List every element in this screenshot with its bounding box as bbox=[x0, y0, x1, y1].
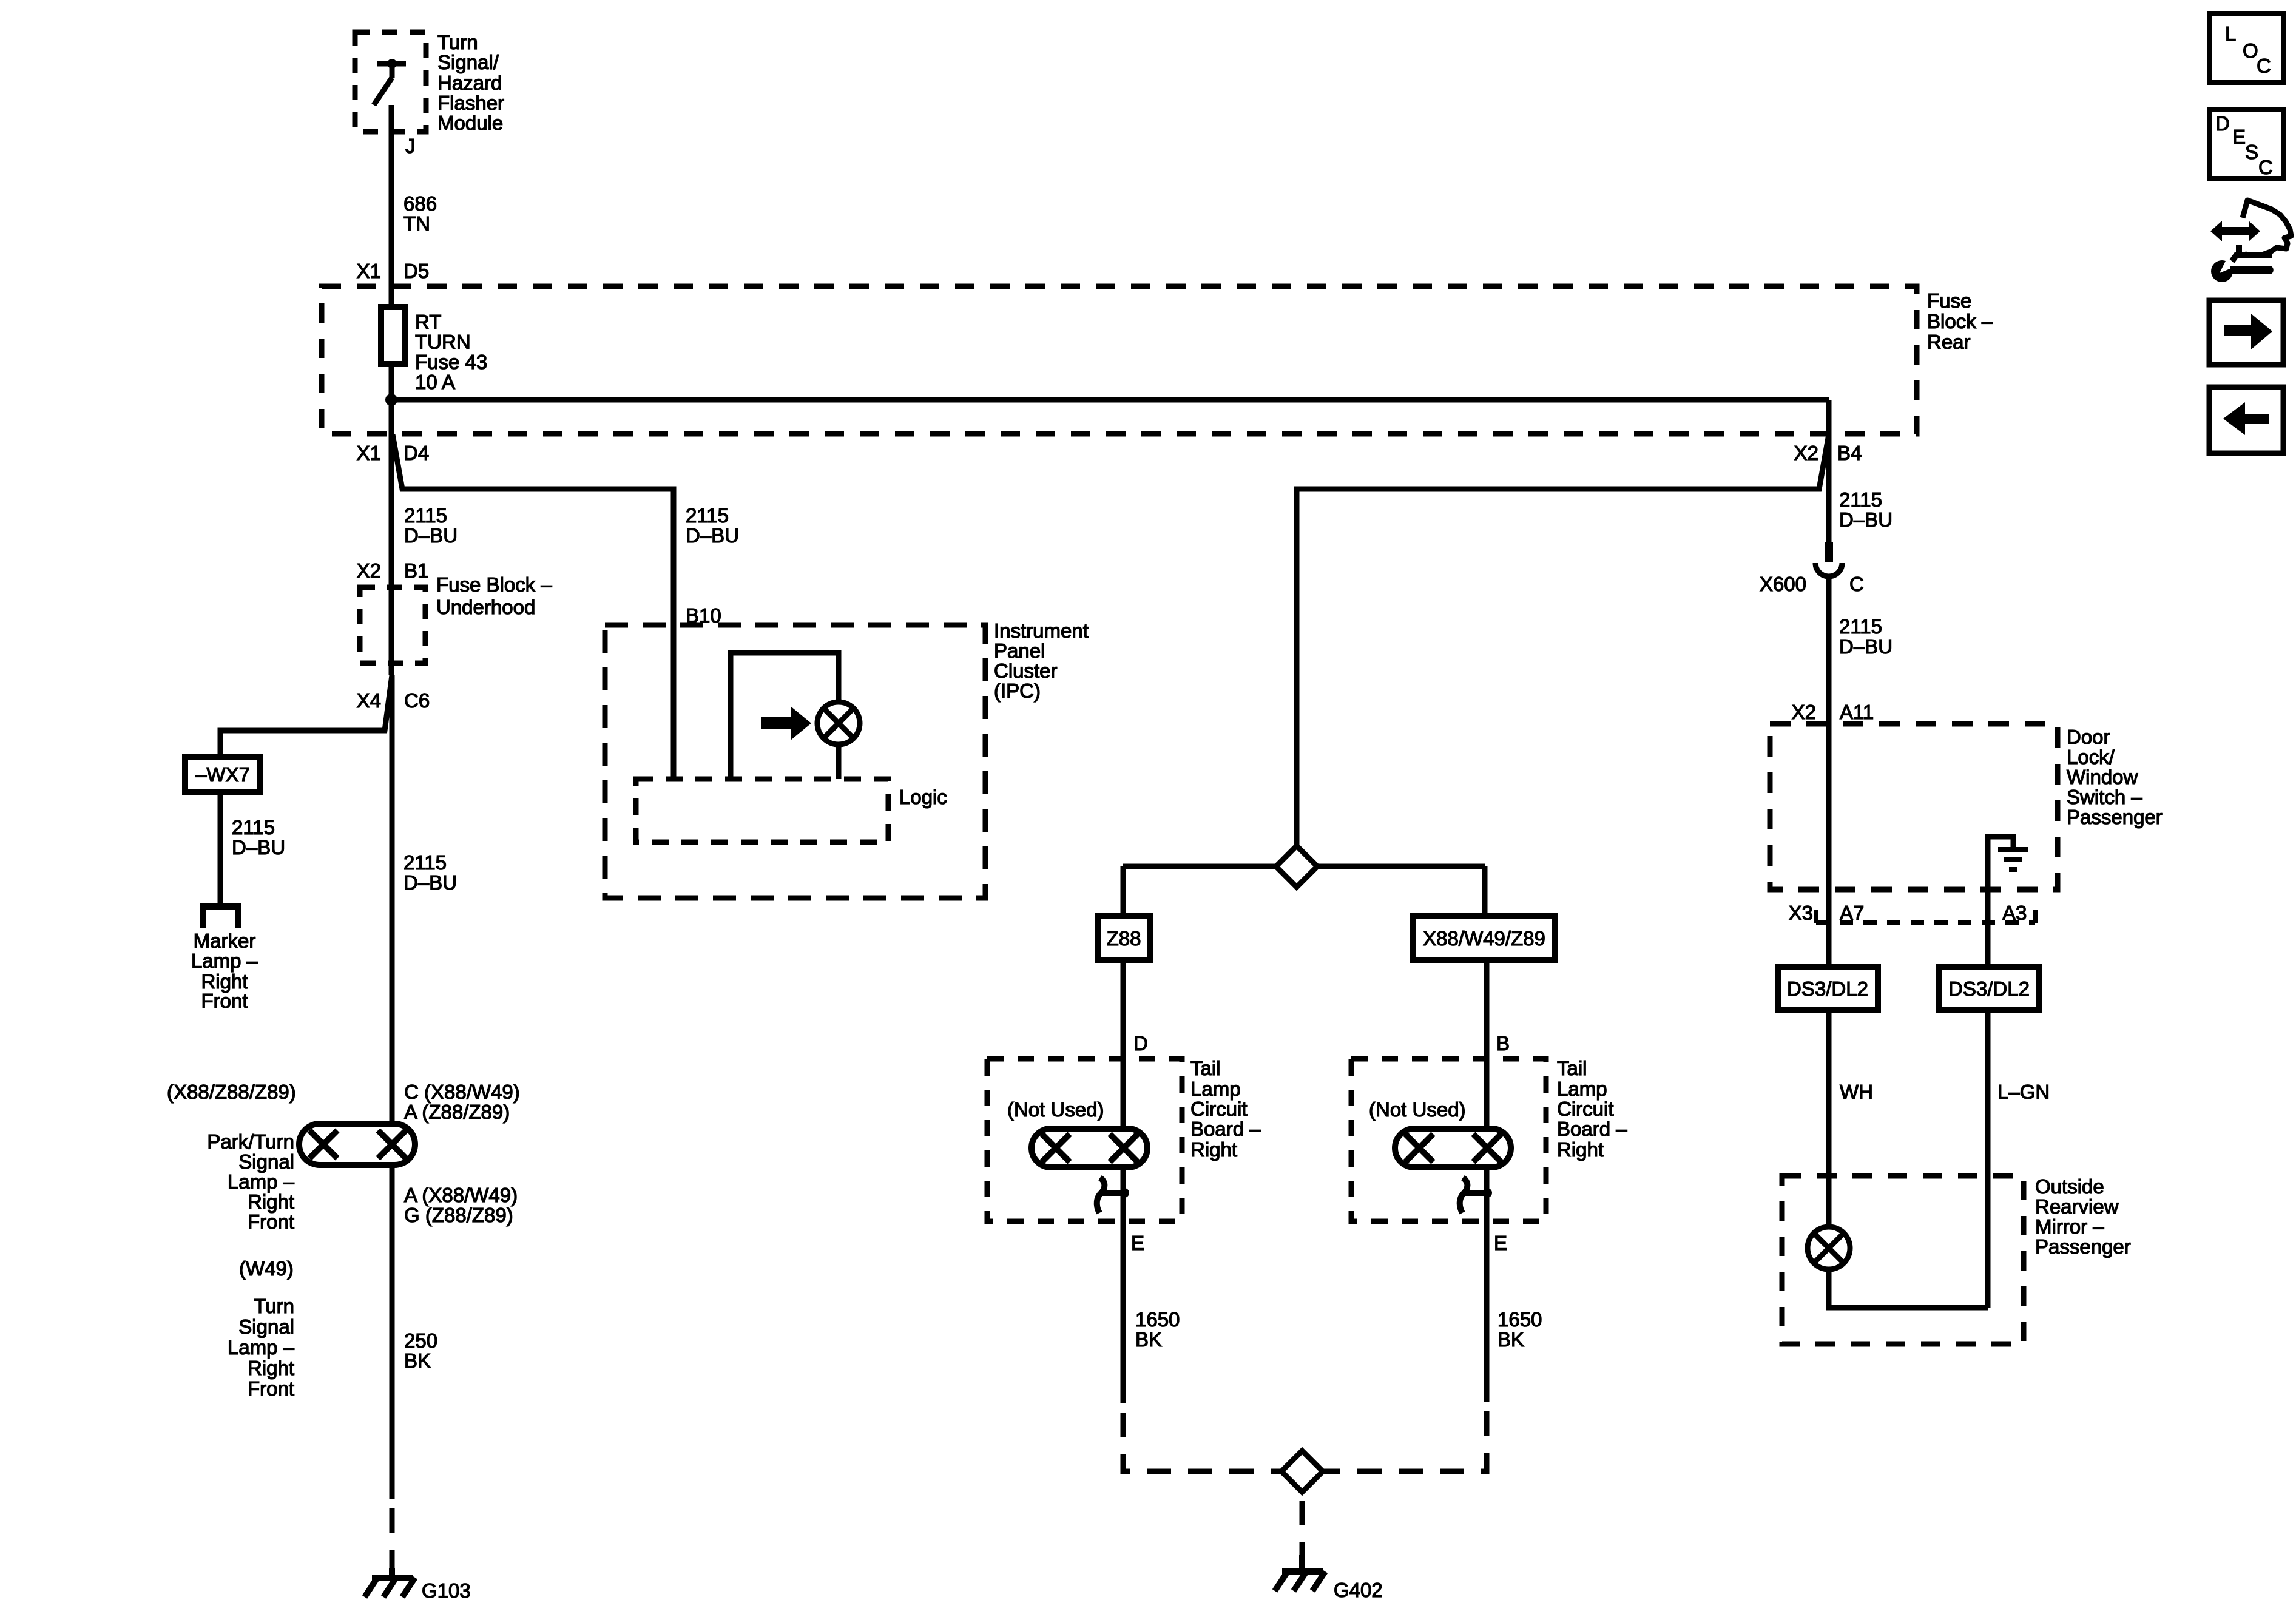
svg-text:WH: WH bbox=[1840, 1081, 1873, 1103]
svg-text:Logic: Logic bbox=[899, 786, 947, 808]
svg-text:X2: X2 bbox=[1794, 442, 1818, 464]
svg-text:Lamp –: Lamp – bbox=[228, 1336, 295, 1359]
svg-text:(Not Used): (Not Used) bbox=[1369, 1098, 1466, 1121]
svg-text:D–BU: D–BU bbox=[404, 524, 458, 547]
svg-text:C: C bbox=[1849, 573, 1864, 595]
svg-text:2115: 2115 bbox=[404, 504, 447, 527]
svg-text:Lamp: Lamp bbox=[1190, 1078, 1241, 1100]
svg-text:G402: G402 bbox=[1334, 1579, 1383, 1601]
svg-text:C: C bbox=[2257, 55, 2271, 77]
svg-text:686: 686 bbox=[403, 192, 437, 215]
svg-text:G (Z88/Z89): G (Z88/Z89) bbox=[404, 1204, 513, 1226]
svg-text:Circuit: Circuit bbox=[1190, 1098, 1248, 1120]
svg-text:BK: BK bbox=[404, 1349, 431, 1372]
svg-text:Signal: Signal bbox=[238, 1150, 294, 1173]
svg-text:TURN: TURN bbox=[415, 331, 471, 353]
svg-text:E: E bbox=[1131, 1232, 1144, 1254]
svg-text:–WX7: –WX7 bbox=[195, 763, 250, 786]
svg-text:D5: D5 bbox=[403, 260, 429, 282]
svg-text:DS3/DL2: DS3/DL2 bbox=[1948, 977, 2030, 1000]
svg-text:O: O bbox=[2243, 39, 2258, 62]
svg-text:X2: X2 bbox=[1792, 701, 1816, 723]
svg-text:Switch –: Switch – bbox=[2067, 786, 2142, 808]
svg-text:Board –: Board – bbox=[1190, 1118, 1261, 1140]
svg-text:Passenger: Passenger bbox=[2067, 806, 2163, 828]
svg-text:B10: B10 bbox=[686, 604, 721, 627]
svg-text:(X88/Z88/Z89): (X88/Z88/Z89) bbox=[167, 1081, 296, 1103]
svg-text:A (Z88/Z89): A (Z88/Z89) bbox=[404, 1101, 510, 1123]
svg-text:J: J bbox=[405, 135, 416, 157]
svg-text:Z88: Z88 bbox=[1107, 927, 1141, 950]
svg-text:A (X88/W49): A (X88/W49) bbox=[404, 1184, 518, 1206]
svg-text:Right: Right bbox=[248, 1357, 294, 1379]
svg-text:RT: RT bbox=[415, 311, 441, 333]
svg-text:Right: Right bbox=[1557, 1138, 1604, 1161]
svg-text:E: E bbox=[1494, 1232, 1507, 1254]
svg-text:Panel: Panel bbox=[994, 640, 1045, 662]
svg-text:1650: 1650 bbox=[1135, 1308, 1180, 1331]
svg-text:Window: Window bbox=[2067, 766, 2138, 788]
svg-text:A3: A3 bbox=[2002, 902, 2027, 924]
svg-text:X1: X1 bbox=[357, 260, 381, 282]
svg-text:X600: X600 bbox=[1760, 573, 1806, 595]
svg-text:S: S bbox=[2245, 141, 2258, 163]
svg-text:250: 250 bbox=[404, 1329, 437, 1352]
svg-text:Tail: Tail bbox=[1190, 1057, 1221, 1079]
svg-text:Rearview: Rearview bbox=[2035, 1195, 2119, 1218]
svg-text:(IPC): (IPC) bbox=[994, 680, 1041, 702]
svg-text:Cluster: Cluster bbox=[994, 660, 1058, 682]
svg-text:2115: 2115 bbox=[232, 816, 275, 839]
svg-text:X88/W49/Z89: X88/W49/Z89 bbox=[1423, 927, 1545, 950]
svg-text:2115: 2115 bbox=[403, 851, 447, 874]
svg-text:Mirror –: Mirror – bbox=[2035, 1215, 2104, 1238]
svg-text:C: C bbox=[2258, 156, 2273, 178]
svg-text:D4: D4 bbox=[403, 442, 429, 464]
svg-text:D–BU: D–BU bbox=[232, 836, 285, 859]
svg-text:Underhood: Underhood bbox=[436, 596, 535, 618]
svg-text:Right: Right bbox=[248, 1190, 294, 1213]
svg-text:D: D bbox=[2215, 112, 2230, 135]
svg-text:D–BU: D–BU bbox=[1839, 635, 1893, 658]
svg-text:D–BU: D–BU bbox=[403, 871, 457, 894]
svg-text:2115: 2115 bbox=[1839, 615, 1882, 638]
svg-text:(W49): (W49) bbox=[239, 1257, 294, 1280]
svg-text:Lamp –: Lamp – bbox=[191, 950, 258, 972]
svg-text:L: L bbox=[2225, 22, 2236, 45]
svg-text:Hazard: Hazard bbox=[437, 72, 502, 94]
svg-text:Park/Turn: Park/Turn bbox=[207, 1130, 294, 1153]
svg-text:A7: A7 bbox=[1840, 902, 1864, 924]
svg-text:B: B bbox=[1496, 1032, 1510, 1055]
svg-text:B4: B4 bbox=[1837, 442, 1862, 464]
svg-text:C6: C6 bbox=[404, 689, 430, 712]
svg-text:10 A: 10 A bbox=[415, 371, 455, 393]
svg-text:2115: 2115 bbox=[686, 504, 729, 527]
svg-text:Tail: Tail bbox=[1557, 1057, 1587, 1079]
svg-text:X2: X2 bbox=[357, 559, 381, 582]
svg-text:Rear: Rear bbox=[1927, 331, 1971, 353]
svg-text:TN: TN bbox=[403, 212, 430, 235]
svg-text:2115: 2115 bbox=[1839, 488, 1882, 511]
svg-text:G103: G103 bbox=[422, 1579, 471, 1602]
svg-text:BK: BK bbox=[1135, 1328, 1162, 1351]
svg-text:L–GN: L–GN bbox=[1997, 1081, 2050, 1103]
svg-text:X3: X3 bbox=[1789, 902, 1813, 924]
svg-text:Turn: Turn bbox=[254, 1295, 294, 1317]
svg-text:Marker: Marker bbox=[194, 930, 256, 952]
svg-text:Signal: Signal bbox=[238, 1315, 294, 1338]
svg-text:(Not Used): (Not Used) bbox=[1007, 1098, 1104, 1121]
svg-text:1650: 1650 bbox=[1497, 1308, 1542, 1331]
svg-text:BK: BK bbox=[1497, 1328, 1524, 1351]
svg-text:Front: Front bbox=[248, 1377, 294, 1400]
svg-text:Fuse Block –: Fuse Block – bbox=[436, 573, 552, 596]
svg-text:Module: Module bbox=[437, 112, 503, 134]
svg-text:Front: Front bbox=[201, 990, 248, 1012]
svg-text:X1: X1 bbox=[357, 442, 381, 464]
svg-text:Passenger: Passenger bbox=[2035, 1235, 2131, 1258]
svg-text:Lamp: Lamp bbox=[1557, 1078, 1607, 1100]
svg-text:Turn: Turn bbox=[437, 31, 478, 53]
svg-text:Fuse: Fuse bbox=[1927, 289, 1971, 312]
svg-text:Board –: Board – bbox=[1557, 1118, 1627, 1140]
svg-text:Circuit: Circuit bbox=[1557, 1098, 1614, 1120]
svg-text:B1: B1 bbox=[404, 559, 428, 582]
svg-text:Front: Front bbox=[248, 1210, 294, 1233]
svg-text:Block –: Block – bbox=[1927, 310, 1993, 333]
svg-text:D: D bbox=[1133, 1032, 1148, 1055]
svg-text:Flasher: Flasher bbox=[437, 92, 504, 114]
svg-text:C (X88/W49): C (X88/W49) bbox=[404, 1081, 520, 1103]
svg-text:Outside: Outside bbox=[2035, 1175, 2104, 1198]
svg-text:DS3/DL2: DS3/DL2 bbox=[1787, 977, 1868, 1000]
svg-text:Instrument: Instrument bbox=[994, 619, 1089, 642]
svg-text:Fuse 43: Fuse 43 bbox=[415, 351, 487, 373]
svg-text:Signal/: Signal/ bbox=[437, 51, 499, 73]
svg-text:D–BU: D–BU bbox=[1839, 508, 1893, 531]
svg-text:E: E bbox=[2232, 126, 2246, 148]
svg-text:Door: Door bbox=[2067, 726, 2110, 748]
svg-text:A11: A11 bbox=[1840, 701, 1874, 723]
svg-text:X4: X4 bbox=[357, 689, 381, 712]
svg-text:Lock/: Lock/ bbox=[2067, 746, 2115, 768]
svg-text:Right: Right bbox=[1190, 1138, 1237, 1161]
svg-text:Lamp –: Lamp – bbox=[228, 1170, 295, 1193]
svg-text:D–BU: D–BU bbox=[686, 524, 739, 547]
